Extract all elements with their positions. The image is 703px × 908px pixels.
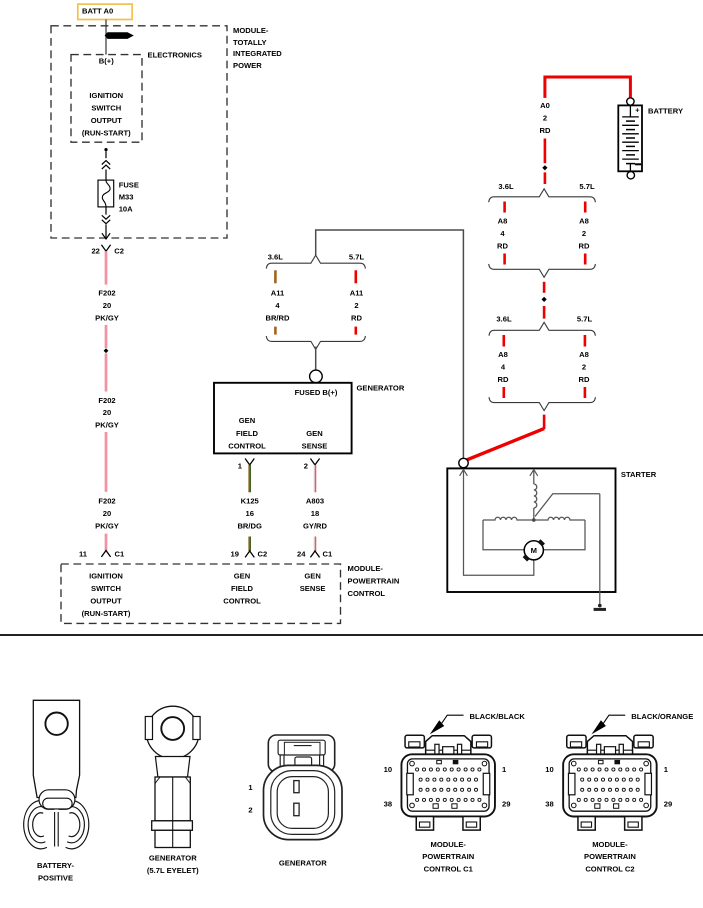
svg-text:BR/DG: BR/DG bbox=[237, 521, 262, 530]
svg-text:BATTERY-: BATTERY- bbox=[37, 861, 75, 870]
junction diamond on F202 bbox=[104, 348, 109, 353]
svg-text:MODULE-: MODULE- bbox=[233, 26, 269, 35]
svg-text:PK/GY: PK/GY bbox=[95, 420, 119, 429]
svg-text:A8: A8 bbox=[579, 217, 589, 226]
svg-text:19: 19 bbox=[231, 549, 239, 558]
svg-text:2: 2 bbox=[354, 301, 358, 310]
svg-text:20: 20 bbox=[103, 509, 111, 518]
PCM C1 pin number labels bbox=[384, 765, 511, 808]
split brace A8 upper top bbox=[489, 189, 596, 202]
svg-text:RD: RD bbox=[579, 375, 590, 384]
wire A8 ticks bottom (lower pair) bbox=[504, 387, 585, 398]
generator 2-way connector face bbox=[264, 735, 343, 840]
electronics dashed box bbox=[71, 55, 142, 143]
svg-text:BATTERY: BATTERY bbox=[648, 107, 683, 116]
wire A0 battery feed (RD) bbox=[545, 77, 631, 98]
label BATTERY-POSITIVE bbox=[37, 861, 75, 883]
svg-text:22: 22 bbox=[91, 247, 99, 256]
svg-text:C1: C1 bbox=[323, 549, 333, 558]
wire A11 3.6L tick bottom bbox=[274, 327, 277, 335]
label F202 20 PK/GY (2) bbox=[95, 396, 119, 430]
svg-text:2: 2 bbox=[582, 362, 586, 371]
svg-text:A8: A8 bbox=[498, 217, 508, 226]
svg-text:10: 10 bbox=[384, 765, 392, 774]
svg-text:GEN: GEN bbox=[239, 416, 255, 425]
node BATT A0 label box bbox=[78, 4, 132, 19]
label MODULE-POWERTRAIN CONTROL bbox=[348, 564, 400, 598]
svg-text:MODULE-: MODULE- bbox=[592, 840, 628, 849]
svg-text:RD: RD bbox=[497, 241, 508, 250]
merge brace A8 lower bottom bbox=[489, 397, 595, 410]
svg-text:2: 2 bbox=[543, 113, 547, 122]
connector C2 pin 22 of TIPM bbox=[91, 245, 124, 256]
wire F202 segment 2 bbox=[105, 325, 108, 348]
svg-text:PK/GY: PK/GY bbox=[95, 313, 119, 322]
wire A8 ticks top (lower pair) bbox=[504, 335, 585, 347]
svg-text:IGNITION: IGNITION bbox=[89, 91, 123, 100]
svg-text:OUTPUT: OUTPUT bbox=[90, 596, 122, 605]
svg-text:RD: RD bbox=[540, 126, 551, 135]
svg-text:GENERATOR: GENERATOR bbox=[357, 384, 405, 393]
split brace A11 top bbox=[266, 255, 365, 268]
svg-text:RD: RD bbox=[498, 375, 509, 384]
connector C1 pin 24 of PCM bbox=[297, 549, 333, 558]
label A11 4 BR/RD bbox=[265, 289, 290, 323]
svg-text:M33: M33 bbox=[119, 193, 134, 202]
arrowhead at TIPM boundary bbox=[102, 233, 110, 239]
svg-text:STARTER: STARTER bbox=[621, 470, 657, 479]
wire A11 3.6L tick top (BR/RD) bbox=[274, 270, 277, 283]
label F202 20 PK/GY (1) bbox=[95, 289, 119, 323]
svg-text:GEN: GEN bbox=[234, 571, 250, 580]
svg-text:10A: 10A bbox=[119, 205, 133, 214]
svg-text:SWITCH: SWITCH bbox=[91, 103, 121, 112]
svg-text:29: 29 bbox=[664, 799, 672, 808]
svg-text:5.7L: 5.7L bbox=[349, 252, 365, 261]
svg-text:3.6L: 3.6L bbox=[498, 182, 514, 191]
battery BT1 symbol bbox=[618, 98, 642, 179]
battery-positive eyelet terminal bbox=[24, 700, 89, 849]
pin GEN FIELD CONTROL bbox=[228, 416, 266, 450]
wire A0 segment 3 bbox=[544, 172, 547, 184]
pin GEN FIELD CONTROL of PCM bbox=[223, 571, 261, 605]
pin IGNITION SWITCH OUTPUT (RUN-START) of PCM bbox=[82, 571, 131, 618]
label K125 16 BR/DG bbox=[237, 496, 262, 530]
svg-text:16: 16 bbox=[245, 509, 253, 518]
svg-text:CONTROL: CONTROL bbox=[348, 589, 386, 598]
label FUSE M33 10A bbox=[119, 181, 139, 214]
svg-text:POWER: POWER bbox=[233, 61, 262, 70]
pin GEN SENSE bbox=[302, 429, 328, 451]
wire F202 segment 3 bbox=[105, 353, 108, 391]
svg-text:MODULE-: MODULE- bbox=[431, 840, 467, 849]
svg-text:SENSE: SENSE bbox=[302, 441, 328, 450]
svg-text:A11: A11 bbox=[350, 289, 364, 298]
svg-text:GEN: GEN bbox=[306, 429, 322, 438]
wire F202 segment 5 bbox=[105, 534, 108, 551]
label A8 4 RD (upper) bbox=[497, 217, 508, 251]
ground bbox=[594, 604, 606, 610]
starter terminal ring bbox=[459, 458, 468, 467]
PCM connector C1 drawing bbox=[401, 735, 495, 830]
svg-text:A8: A8 bbox=[498, 350, 508, 359]
svg-text:M: M bbox=[531, 546, 537, 555]
svg-text:11: 11 bbox=[79, 549, 88, 558]
wire generator feed to starter node bbox=[316, 230, 464, 458]
svg-text:5.7L: 5.7L bbox=[579, 182, 595, 191]
wire F202 segment 4 bbox=[105, 432, 108, 492]
label MODULE-POWERTRAIN CONTROL C2 bbox=[584, 840, 636, 874]
wire A803 segment 1 (GY/RD) bbox=[313, 465, 315, 492]
starter solenoid switch lever bbox=[535, 494, 600, 517]
wire starter internal left bbox=[464, 470, 534, 576]
svg-text:A11: A11 bbox=[271, 289, 285, 298]
wire K125 segment 2 bbox=[248, 537, 250, 552]
svg-text:F202: F202 bbox=[98, 289, 115, 298]
svg-text:FUSE: FUSE bbox=[119, 181, 139, 190]
svg-text:BLACK/BLACK: BLACK/BLACK bbox=[470, 712, 526, 721]
svg-text:CONTROL C2: CONTROL C2 bbox=[585, 865, 634, 874]
svg-text:C1: C1 bbox=[115, 549, 125, 558]
svg-text:20: 20 bbox=[103, 301, 111, 310]
connector chevrons up bbox=[102, 161, 110, 169]
merge brace A11 bottom bbox=[266, 336, 365, 349]
svg-text:CONTROL: CONTROL bbox=[228, 441, 266, 450]
svg-text:2: 2 bbox=[304, 462, 308, 471]
svg-text:3.6L: 3.6L bbox=[268, 252, 284, 261]
label MODULE-POWERTRAIN CONTROL C1 bbox=[422, 840, 474, 874]
svg-text:ELECTRONICS: ELECTRONICS bbox=[148, 51, 202, 60]
svg-text:3.6L: 3.6L bbox=[496, 314, 512, 323]
junction diamond on A0 (1) bbox=[542, 165, 547, 170]
starter field winding left bbox=[483, 517, 534, 520]
svg-text:FUSED B(+): FUSED B(+) bbox=[295, 388, 338, 397]
generator pin 1 connector bbox=[238, 459, 255, 471]
svg-text:2: 2 bbox=[248, 806, 252, 815]
svg-text:B(+): B(+) bbox=[99, 56, 114, 65]
svg-text:(RUN-START): (RUN-START) bbox=[82, 609, 131, 618]
svg-text:GY/RD: GY/RD bbox=[303, 521, 328, 530]
svg-text:10: 10 bbox=[545, 765, 553, 774]
svg-text:24: 24 bbox=[297, 549, 306, 558]
svg-text:+: + bbox=[635, 106, 640, 115]
wire A0 segment 6 bbox=[543, 415, 546, 429]
PCM C2 color callout arrow bbox=[592, 715, 626, 734]
svg-text:2: 2 bbox=[582, 229, 586, 238]
wire K125 segment 1 (BR/DG) bbox=[248, 465, 250, 492]
svg-text:5.7L: 5.7L bbox=[577, 314, 593, 323]
svg-text:A803: A803 bbox=[306, 496, 324, 505]
wire A803 segment 2 bbox=[313, 537, 315, 552]
connector chevrons down bbox=[102, 215, 110, 223]
svg-text:38: 38 bbox=[545, 799, 553, 808]
PCM C2 pin number labels bbox=[545, 765, 672, 808]
PCM C1 color callout arrow bbox=[430, 715, 464, 734]
svg-text:29: 29 bbox=[502, 799, 510, 808]
connector C1 pin 11 of PCM bbox=[79, 549, 125, 558]
svg-text:BLACK/ORANGE: BLACK/ORANGE bbox=[631, 712, 693, 721]
svg-text:K125: K125 bbox=[241, 496, 260, 505]
wire thick red to starter terminal bbox=[466, 429, 544, 461]
junction dot below electronics box bbox=[104, 148, 107, 151]
svg-text:BR/RD: BR/RD bbox=[265, 313, 290, 322]
starter battery-terminal arrow bbox=[460, 470, 468, 476]
starter solenoid coil bbox=[534, 484, 537, 508]
PCM connector C2 drawing bbox=[563, 735, 657, 830]
svg-text:A8: A8 bbox=[579, 350, 589, 359]
wire A11 5.7L tick top (RD) bbox=[354, 270, 357, 283]
generator B+ ring terminal bbox=[310, 370, 323, 383]
svg-text:POWERTRAIN: POWERTRAIN bbox=[584, 852, 636, 861]
svg-text:POWERTRAIN: POWERTRAIN bbox=[348, 576, 400, 585]
svg-text:CONTROL: CONTROL bbox=[223, 596, 261, 605]
wire starter to ground bbox=[599, 494, 601, 605]
starter field winding right bbox=[534, 517, 585, 520]
junction diamond on A0 (2) bbox=[542, 297, 547, 302]
label IGNITION SWITCH OUTPUT (RUN-START) bbox=[82, 91, 131, 138]
wire into fuse bbox=[105, 170, 107, 181]
svg-text:POWERTRAIN: POWERTRAIN bbox=[422, 852, 474, 861]
wire A11 5.7L tick bottom bbox=[354, 327, 357, 335]
separator line bbox=[0, 634, 703, 636]
label A803 18 GY/RD bbox=[303, 496, 328, 530]
svg-text:C2: C2 bbox=[114, 247, 124, 256]
svg-text:(5.7L EYELET): (5.7L EYELET) bbox=[147, 866, 199, 875]
connector C2 pin 19 of PCM bbox=[231, 549, 268, 558]
wire F202 segment 1 (PK/GY) bbox=[105, 251, 108, 284]
wire A0 segment 2 bbox=[544, 139, 547, 164]
svg-text:CONTROL C1: CONTROL C1 bbox=[424, 865, 474, 874]
generator U1 box bbox=[214, 383, 352, 454]
starter junction node bbox=[532, 518, 536, 522]
module PCM dashed box bbox=[61, 564, 341, 623]
svg-text:RD: RD bbox=[351, 313, 362, 322]
label GENERATOR (5.7L EYELET) bbox=[147, 854, 199, 875]
wire A0 segment 4 bbox=[543, 282, 546, 293]
split brace A8 lower top bbox=[489, 322, 595, 335]
svg-text:BATT A0: BATT A0 bbox=[82, 6, 113, 15]
svg-text:C2: C2 bbox=[258, 549, 268, 558]
starter solenoid-terminal arrow bbox=[530, 470, 538, 476]
wire below fuse bbox=[105, 207, 107, 215]
wire from BATT A0 into TIPM bbox=[105, 20, 107, 55]
svg-text:20: 20 bbox=[103, 408, 111, 417]
svg-text:SWITCH: SWITCH bbox=[91, 584, 121, 593]
wire A8 ticks bottom (upper pair) bbox=[505, 254, 586, 265]
starter M1 box bbox=[447, 468, 615, 592]
wire brace to generator ring bbox=[315, 347, 317, 371]
svg-text:POSITIVE: POSITIVE bbox=[38, 873, 73, 882]
svg-text:MODULE-: MODULE- bbox=[348, 564, 384, 573]
svg-text:F202: F202 bbox=[98, 496, 115, 505]
fuse M33 10A bbox=[98, 180, 114, 207]
label A8 2 RD (upper) bbox=[579, 217, 590, 251]
label F202 20 PK/GY (3) bbox=[95, 496, 119, 530]
svg-text:FIELD: FIELD bbox=[236, 429, 258, 438]
svg-text:38: 38 bbox=[384, 799, 392, 808]
wire field winding frame bbox=[483, 520, 585, 550]
svg-text:FIELD: FIELD bbox=[231, 584, 253, 593]
label A8 2 RD (lower) bbox=[579, 350, 590, 384]
wire A8 4 RD tick top bbox=[503, 202, 506, 213]
merge brace A8 upper bottom bbox=[489, 264, 596, 277]
svg-text:GEN: GEN bbox=[304, 571, 320, 580]
generator pin 2 connector bbox=[304, 459, 320, 471]
module TIPM dashed box bbox=[51, 26, 227, 238]
svg-text:PK/GY: PK/GY bbox=[95, 521, 119, 530]
label MODULE-TOTALLY INTEGRATED POWER bbox=[233, 26, 282, 70]
svg-text:GENERATOR: GENERATOR bbox=[149, 854, 197, 863]
wire A0 segment 5 bbox=[543, 306, 546, 319]
wire to solenoid coil bbox=[533, 470, 535, 484]
wire solenoid to junction bbox=[533, 508, 535, 520]
label A11 2 RD bbox=[350, 289, 364, 323]
svg-text:(RUN-START): (RUN-START) bbox=[82, 128, 131, 137]
wire to TIPM boundary bbox=[105, 225, 107, 239]
svg-text:INTEGRATED: INTEGRATED bbox=[233, 49, 282, 58]
svg-text:GENERATOR: GENERATOR bbox=[279, 859, 327, 868]
svg-text:OUTPUT: OUTPUT bbox=[91, 116, 123, 125]
svg-text:18: 18 bbox=[311, 509, 319, 518]
svg-text:IGNITION: IGNITION bbox=[89, 571, 123, 580]
starter motor M bbox=[523, 539, 545, 561]
svg-text:A0: A0 bbox=[540, 101, 550, 110]
svg-text:RD: RD bbox=[579, 241, 590, 250]
svg-text:TOTALLY: TOTALLY bbox=[233, 38, 267, 47]
generator 5.7L eyelet terminal bbox=[145, 706, 200, 847]
wire B(+) to fuse bbox=[105, 151, 107, 158]
power feed arrow bbox=[105, 32, 134, 39]
svg-text:F202: F202 bbox=[98, 396, 115, 405]
svg-text:SENSE: SENSE bbox=[300, 584, 326, 593]
pin GEN SENSE of PCM bbox=[300, 571, 326, 593]
label A0 2 RD bbox=[540, 101, 551, 135]
label A8 4 RD (lower) bbox=[498, 350, 509, 384]
wire A8 2 RD tick top bbox=[584, 202, 587, 213]
